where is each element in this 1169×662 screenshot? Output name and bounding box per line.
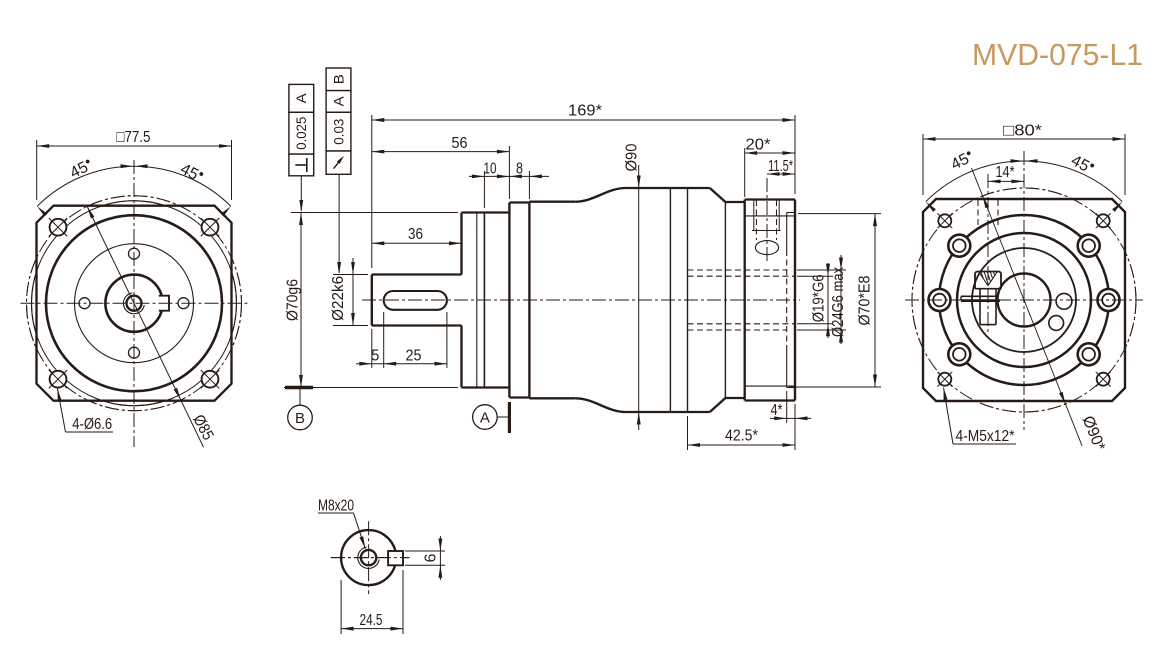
svg-text:□77.5: □77.5 xyxy=(116,129,150,146)
svg-text:169*: 169* xyxy=(568,102,602,119)
svg-text:36: 36 xyxy=(408,226,423,243)
svg-text:Ø22k6: Ø22k6 xyxy=(330,276,347,321)
svg-text:0.03: 0.03 xyxy=(331,119,346,145)
svg-text:4-Ø6.6: 4-Ø6.6 xyxy=(72,416,112,433)
svg-text:A: A xyxy=(331,96,346,106)
svg-text:Ø24G6 max: Ø24G6 max xyxy=(830,267,847,337)
svg-text:B: B xyxy=(295,410,305,427)
svg-text:A: A xyxy=(480,409,490,426)
svg-text:Ø70*E8: Ø70*E8 xyxy=(856,275,873,325)
svg-text:Ø90: Ø90 xyxy=(623,143,640,171)
svg-text:56: 56 xyxy=(452,135,468,152)
svg-text:6: 6 xyxy=(422,553,439,562)
svg-text:24.5: 24.5 xyxy=(360,612,383,629)
svg-text:25: 25 xyxy=(406,347,422,364)
svg-text:4*: 4* xyxy=(771,402,783,419)
svg-text:14*: 14* xyxy=(996,164,1015,181)
svg-text:A: A xyxy=(294,93,309,103)
svg-text:5: 5 xyxy=(371,347,379,364)
svg-text:20*: 20* xyxy=(746,136,771,153)
svg-text:Ø70g6: Ø70g6 xyxy=(284,279,301,321)
svg-text:0.025: 0.025 xyxy=(294,117,309,150)
svg-text:4-M5x12*: 4-M5x12* xyxy=(956,428,1015,445)
svg-text:11.5*: 11.5* xyxy=(768,158,793,175)
svg-text:Ø19*G6: Ø19*G6 xyxy=(810,274,827,322)
svg-text:□80*: □80* xyxy=(1003,122,1042,139)
svg-text:10: 10 xyxy=(484,160,497,177)
svg-text:M8x20: M8x20 xyxy=(318,497,354,514)
svg-text:42.5*: 42.5* xyxy=(725,427,758,444)
svg-text:MVD-075-L1: MVD-075-L1 xyxy=(972,37,1143,72)
svg-text:8: 8 xyxy=(516,160,523,177)
svg-text:B: B xyxy=(331,74,346,84)
